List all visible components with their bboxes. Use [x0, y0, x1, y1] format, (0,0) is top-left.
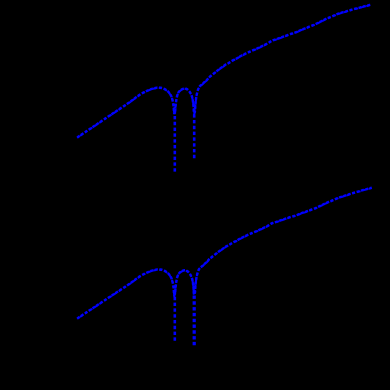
wire: bottom curve secondary overlapping dotted trace	[77, 188, 372, 319]
wire: top curve secondary overlapping dotted trace	[77, 5, 372, 138]
wire: bottom curve notch 1 vertical	[174, 290, 177, 341]
wire: top curve notch 1 vertical	[174, 107, 177, 172]
wire: top curve notch 2 vertical	[193, 107, 196, 158]
wire: bottom curve notch 2 vertical	[193, 290, 196, 345]
wire: bottom curve main dotted trace	[77, 188, 372, 319]
wire: top curve main dotted trace	[77, 5, 372, 138]
